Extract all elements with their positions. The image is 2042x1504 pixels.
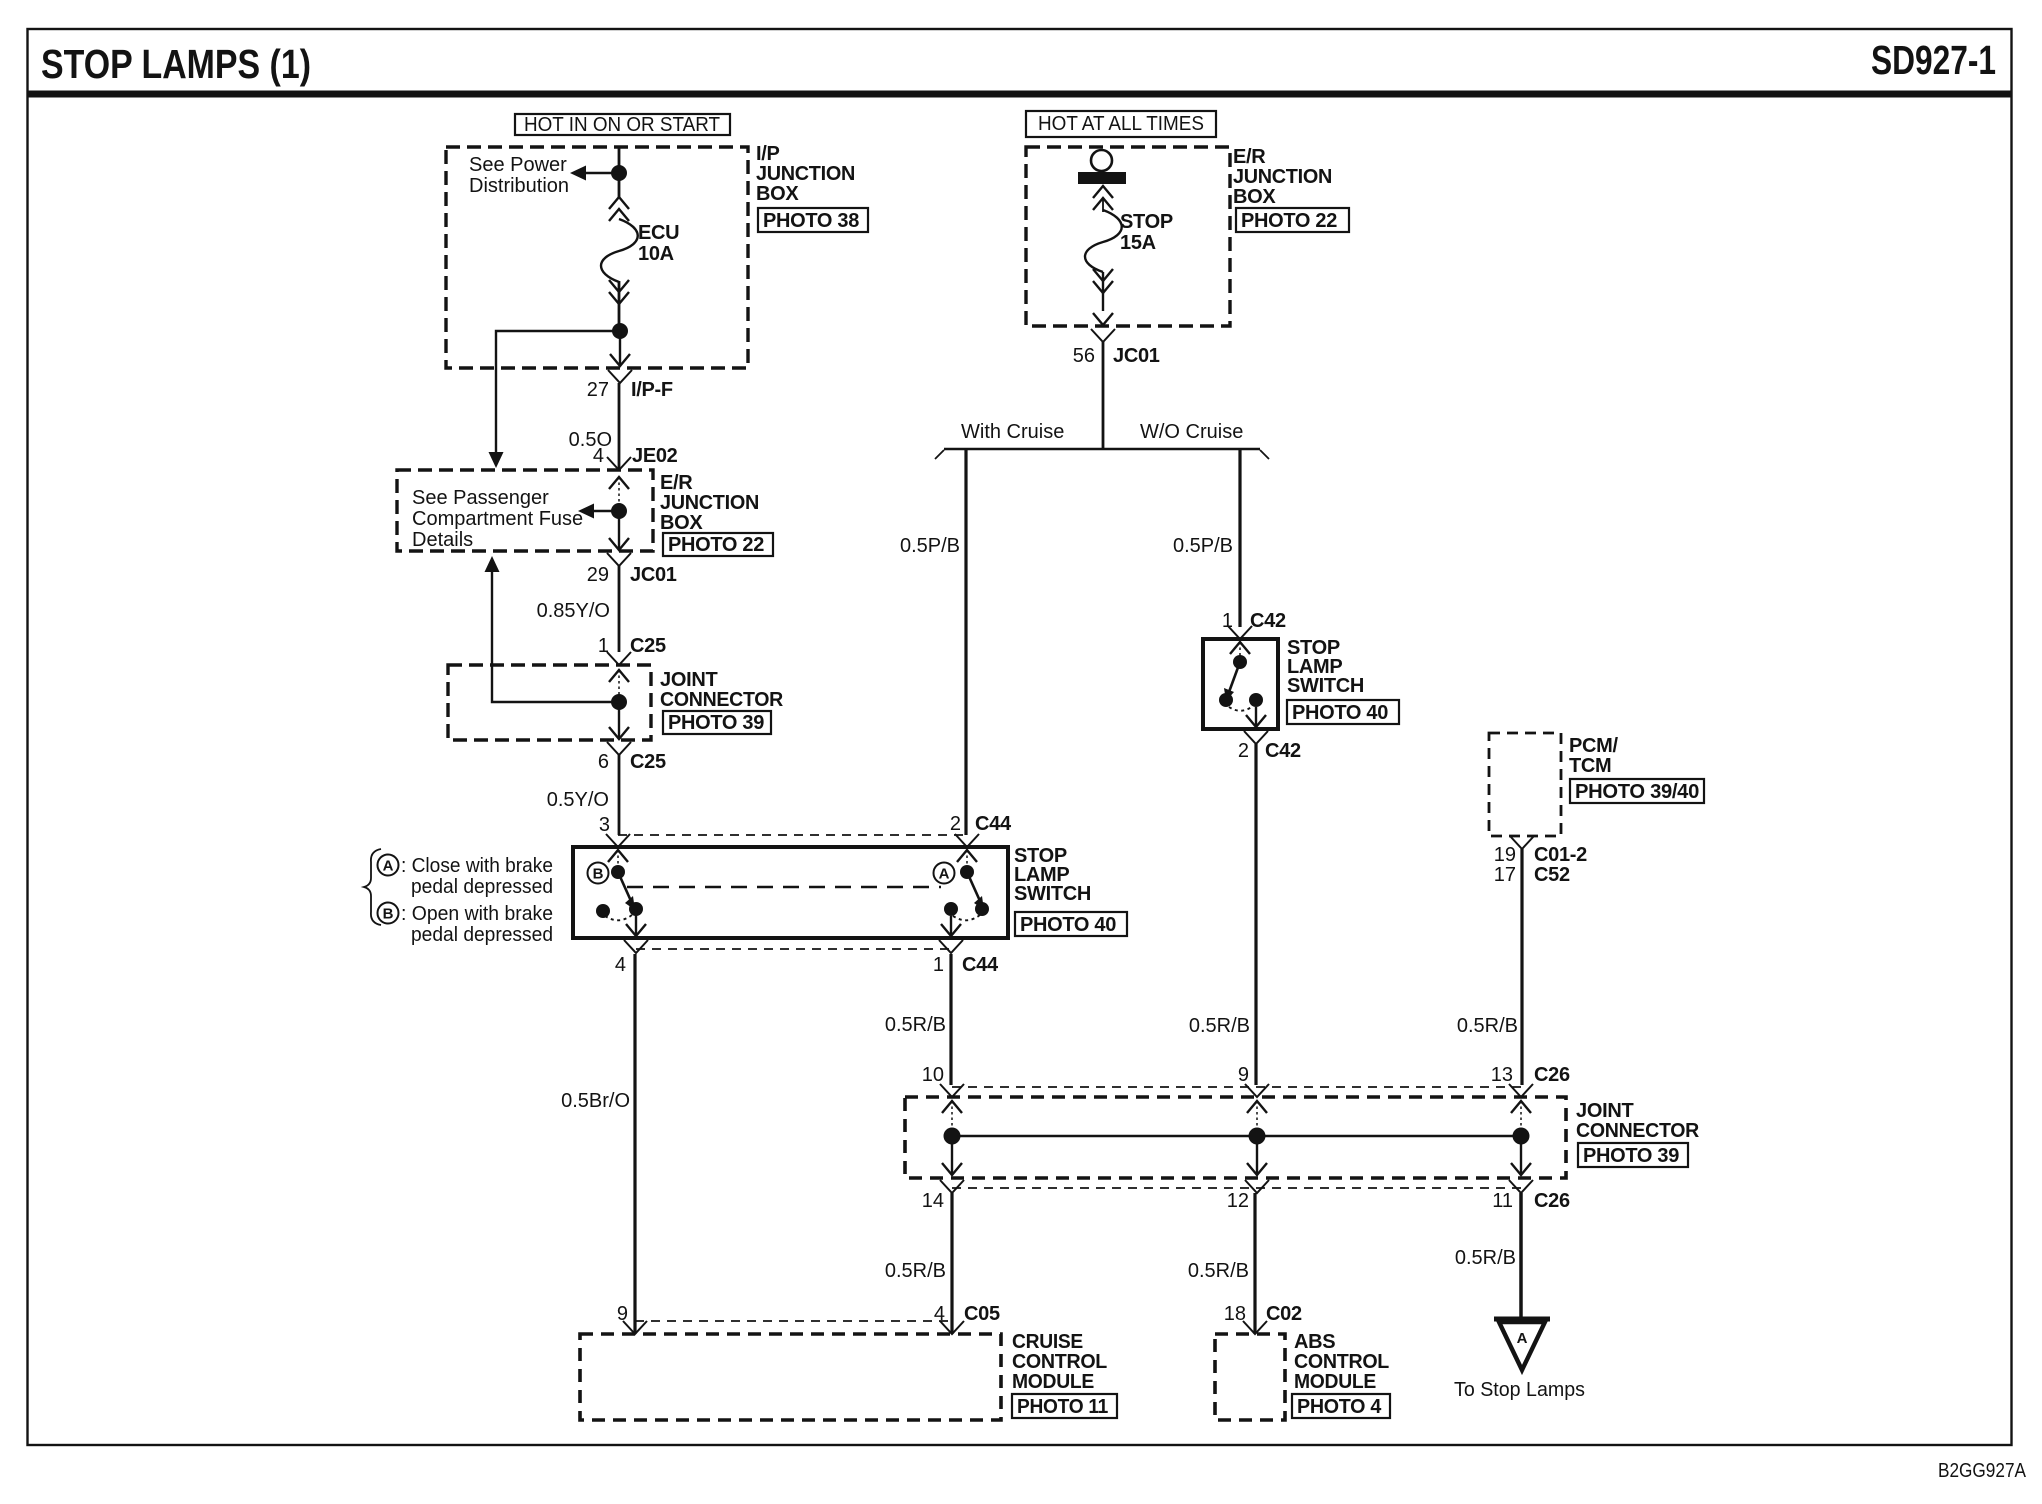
svg-text:12: 12 [1227, 1190, 1249, 1212]
switch A dotted arc [953, 915, 980, 920]
svg-text:A: A [1517, 1330, 1528, 1347]
switch pole dot B [611, 865, 625, 879]
PHOTO 4 label [1292, 1394, 1390, 1418]
svg-text:2: 2 [950, 813, 961, 835]
dashed tie line below switch [636, 948, 951, 950]
svg-text:: Open with brake: : Open with brake [401, 903, 553, 925]
circled A contact label [934, 863, 955, 884]
svg-text:JUNCTION: JUNCTION [660, 492, 759, 514]
connector 19 C01-2 / 17 C52 [1494, 836, 1587, 886]
svg-text:See Passenger: See Passenger [412, 487, 549, 509]
PCM/TCM label [1569, 735, 1619, 777]
connector 14 C26 exit [922, 1143, 964, 1212]
svg-text:0.5O: 0.5O [569, 429, 612, 451]
svg-text:BOX: BOX [756, 183, 799, 205]
connector 13 C26 entry [1491, 1064, 1570, 1128]
svg-text:ECU: ECU [638, 222, 679, 244]
switch U2 contact dot left [1219, 693, 1233, 707]
legend circled B [378, 903, 399, 924]
drawing number B2GG927A [1938, 1460, 2027, 1482]
connector 4 C05 entry [934, 1303, 1000, 1334]
cruise control module box [580, 1334, 1001, 1420]
switch U2 contact dot right [1249, 693, 1263, 707]
svg-text:27: 27 [587, 379, 609, 401]
connector 2 C44 entry [950, 813, 1012, 847]
svg-text:0.5R/B: 0.5R/B [1455, 1247, 1516, 1269]
svg-text:CONNECTOR: CONNECTOR [1576, 1120, 1700, 1142]
svg-text:2: 2 [1238, 740, 1249, 762]
svg-text:JUNCTION: JUNCTION [756, 163, 855, 185]
svg-text:HOT IN ON OR START: HOT IN ON OR START [524, 114, 720, 136]
pin3 inner chevron [608, 850, 628, 866]
wire cruise 0.5R/B lower [885, 1193, 952, 1334]
svg-text:0.5R/B: 0.5R/B [885, 1260, 946, 1282]
label With Cruise [961, 421, 1064, 443]
svg-text:C52: C52 [1534, 864, 1570, 886]
PHOTO 22 label left [663, 533, 773, 556]
svg-text:JC01: JC01 [1113, 345, 1160, 367]
connector 27 I/P-F at box bottom [587, 331, 673, 401]
legend note A [401, 855, 553, 898]
joint connector label [1576, 1100, 1700, 1142]
svg-text:29: 29 [587, 564, 609, 586]
wire with-cruise 0.5R/B upper [885, 954, 951, 1085]
cruise control module label [1012, 1331, 1107, 1393]
svg-text:0.85Y/O: 0.85Y/O [537, 600, 610, 622]
svg-text:STOP: STOP [1120, 211, 1173, 233]
bus junction dot right [1513, 1128, 1530, 1145]
svg-text:PHOTO 11: PHOTO 11 [1017, 1396, 1108, 1418]
node junction dot 4 [611, 694, 627, 710]
wire with-cruise 0.5P/B [900, 449, 966, 835]
svg-text:4: 4 [934, 1303, 945, 1325]
stop lamp switch U1 box [573, 847, 1008, 938]
legend brace [364, 849, 381, 925]
fuse STOP 15A [1078, 150, 1126, 311]
svg-text:0.5R/B: 0.5R/B [885, 1014, 946, 1036]
entry chevron inside joint connector [609, 670, 629, 695]
PHOTO 11 label [1012, 1394, 1117, 1418]
svg-text:pedal depressed: pedal depressed [411, 876, 553, 898]
PCM/TCM box [1489, 733, 1561, 836]
pin2 inner chevron [957, 850, 977, 866]
connector 1 C25 [598, 635, 666, 665]
wire from box top to node [618, 147, 621, 197]
switch blade A [967, 872, 984, 910]
svg-text:A: A [939, 866, 950, 883]
svg-text:0.5R/B: 0.5R/B [1189, 1015, 1250, 1037]
svg-text:PHOTO 22: PHOTO 22 [668, 534, 764, 556]
E/R junction box right label [1233, 146, 1332, 208]
PHOTO 39 label left [663, 711, 771, 734]
svg-text:C05: C05 [964, 1303, 1000, 1325]
switch contact dot B spare [596, 904, 610, 918]
svg-text:CRUISE: CRUISE [1012, 1331, 1083, 1353]
bus junction dot mid [1249, 1128, 1266, 1145]
wire 0.5O [569, 383, 619, 470]
connector 56 JC01 at box bottom [1073, 313, 1160, 367]
entry chevron inside E/R box [609, 477, 629, 504]
svg-text:MODULE: MODULE [1012, 1371, 1094, 1393]
label W/O Cruise [1140, 421, 1243, 443]
svg-text:ABS: ABS [1294, 1331, 1335, 1353]
svg-text:BOX: BOX [1233, 186, 1276, 208]
svg-text:PCM/: PCM/ [1569, 735, 1619, 757]
switch pole dot A [960, 865, 974, 879]
svg-text:C26: C26 [1534, 1064, 1570, 1086]
svg-text:TCM: TCM [1569, 755, 1611, 777]
wire 0.5Y/O [547, 755, 619, 835]
connector 12 C26 exit [1227, 1143, 1269, 1212]
E/R junction box left [397, 470, 653, 551]
svg-text:C01-2: C01-2 [1534, 844, 1587, 866]
switch contact dot B out [629, 902, 643, 916]
PHOTO 38 label [758, 208, 868, 232]
svg-text:CONTROL: CONTROL [1294, 1351, 1389, 1373]
svg-text:0.5Br/O: 0.5Br/O [561, 1090, 630, 1112]
node junction dot 2 [612, 323, 628, 339]
switch mid dashed line [627, 886, 941, 889]
PHOTO 22 label right [1236, 208, 1349, 232]
svg-text:See Power: See Power [469, 154, 567, 176]
PHOTO 39 label bottom [1578, 1143, 1688, 1167]
svg-text:Compartment Fuse: Compartment Fuse [412, 508, 583, 530]
svg-text:15A: 15A [1120, 232, 1156, 254]
svg-text:JOINT: JOINT [660, 669, 717, 691]
svg-text:PHOTO 4: PHOTO 4 [1297, 1396, 1382, 1418]
dashed tie line above switch [618, 834, 967, 836]
svg-text:BOX: BOX [660, 512, 703, 534]
svg-text:W/O Cruise: W/O Cruise [1140, 421, 1243, 443]
title STOP LAMPS (1) [41, 41, 311, 87]
svg-text:0.5Y/O: 0.5Y/O [547, 789, 609, 811]
svg-text:4: 4 [615, 954, 626, 976]
switch U2 pole dot [1233, 655, 1247, 669]
svg-text:56: 56 [1073, 345, 1095, 367]
joint connector left label [660, 669, 784, 711]
wire w/o-cruise 0.5R/B upper [1189, 744, 1256, 1085]
fuse ECU 10A [601, 197, 638, 331]
svg-text:10A: 10A [638, 243, 674, 265]
svg-text:C25: C25 [630, 751, 666, 773]
switch blade B [618, 872, 635, 910]
wire 0.85Y/O [537, 566, 619, 652]
svg-text:6: 6 [598, 751, 609, 773]
legend note B [401, 903, 553, 946]
joint connector box left [448, 665, 651, 740]
connector 9 C26 entry [1238, 1064, 1269, 1128]
svg-text:C42: C42 [1265, 740, 1301, 762]
svg-text:MODULE: MODULE [1294, 1371, 1376, 1393]
dashed tie line above cruise module [635, 1320, 952, 1322]
svg-text:SD927-1: SD927-1 [1871, 37, 1996, 83]
connector pin 9 entry [617, 1303, 647, 1334]
connector 2 C42 exit [1238, 707, 1301, 762]
svg-text:SWITCH: SWITCH [1287, 675, 1364, 697]
svg-text:pedal depressed: pedal depressed [411, 924, 553, 946]
fuse label STOP 15A [1120, 211, 1173, 254]
svg-text:PHOTO 38: PHOTO 38 [763, 210, 859, 232]
PHOTO 40 label big switch [1015, 912, 1127, 936]
dashed tie line below joint connector [952, 1187, 1521, 1189]
svg-text:14: 14 [922, 1190, 944, 1212]
switch B dotted arc [605, 915, 632, 920]
svg-text:To Stop Lamps: To Stop Lamps [1454, 1379, 1585, 1401]
connector 18 C02 entry [1224, 1303, 1302, 1334]
fuse label ECU 10A [638, 222, 679, 265]
svg-text:PHOTO 39: PHOTO 39 [668, 712, 764, 734]
off-page connector triangle A [1494, 1319, 1550, 1370]
power label HOT AT ALL TIMES [1026, 111, 1216, 137]
connector 1 C42 [1222, 610, 1286, 639]
svg-text:9: 9 [1238, 1064, 1249, 1086]
svg-text:0.5R/B: 0.5R/B [1457, 1015, 1518, 1037]
svg-text:1: 1 [598, 635, 609, 657]
svg-text:JOINT: JOINT [1576, 1100, 1633, 1122]
svg-text:10: 10 [922, 1064, 944, 1086]
bus junction dot left [944, 1128, 961, 1145]
svg-text:C44: C44 [962, 954, 999, 976]
svg-text:PHOTO 40: PHOTO 40 [1292, 702, 1388, 724]
switch U2 blade [1224, 662, 1240, 701]
circled B contact label [588, 863, 609, 884]
wire pcm 0.5R/B [1457, 849, 1522, 1085]
pin 4 exit from switch [615, 909, 648, 976]
switch U2 dotted arc [1229, 706, 1253, 711]
I/P junction box label [756, 143, 855, 205]
pin 3 label [599, 814, 610, 836]
svg-text:11: 11 [1492, 1190, 1513, 1212]
svg-text:With Cruise: With Cruise [961, 421, 1064, 443]
svg-text:0.5P/B: 0.5P/B [900, 535, 960, 557]
title bar divider [27, 91, 2012, 98]
page id SD927-1 [1871, 37, 1996, 83]
svg-text:Distribution: Distribution [469, 175, 569, 197]
ABS control module label [1294, 1331, 1389, 1393]
svg-text:C26: C26 [1534, 1190, 1570, 1212]
svg-text:: Close with brake: : Close with brake [401, 855, 553, 877]
svg-text:SWITCH: SWITCH [1014, 883, 1091, 905]
note See Passenger Compartment Fuse Details [412, 487, 583, 551]
ABS control module box [1215, 1334, 1285, 1420]
connector 11 C26 exit [1492, 1143, 1570, 1212]
svg-text:C42: C42 [1250, 610, 1286, 632]
dashed tie line above joint connector [952, 1086, 1521, 1088]
svg-text:0.5R/B: 0.5R/B [1188, 1260, 1249, 1282]
svg-text:C25: C25 [630, 635, 666, 657]
wire stop lamps 0.5R/B lower [1455, 1193, 1521, 1318]
svg-text:PHOTO 39: PHOTO 39 [1583, 1145, 1679, 1167]
svg-text:B: B [593, 866, 604, 883]
branch wire to JE02 arrow [489, 331, 621, 468]
legend circled A [378, 855, 399, 876]
svg-text:E/R: E/R [1233, 146, 1266, 168]
svg-text:HOT AT ALL TIMES: HOT AT ALL TIMES [1038, 113, 1204, 135]
svg-text:C02: C02 [1266, 1303, 1302, 1325]
power label HOT IN ON OR START [515, 114, 730, 136]
I/P junction box [446, 147, 748, 368]
switch contact dot A out [944, 902, 958, 916]
svg-text:1: 1 [1222, 610, 1233, 632]
wire from JC01 to fork [1102, 342, 1105, 449]
wire left 0.5Br/O [561, 954, 635, 1334]
svg-text:JE02: JE02 [632, 445, 678, 467]
svg-text:B: B [383, 906, 394, 923]
svg-text:3: 3 [599, 814, 610, 836]
note See Power Distribution [469, 154, 569, 197]
node junction dot 3 [611, 503, 627, 519]
svg-text:1: 1 [933, 954, 944, 976]
svg-text:17: 17 [1494, 864, 1516, 886]
svg-text:18: 18 [1224, 1303, 1246, 1325]
connector 10 C26 entry [922, 1064, 964, 1128]
stop lamp switch label [1014, 845, 1091, 905]
svg-text:I/P-F: I/P-F [631, 379, 673, 401]
svg-text:STOP LAMPS (1): STOP LAMPS (1) [41, 41, 311, 87]
svg-text:PHOTO 22: PHOTO 22 [1241, 210, 1337, 232]
svg-text:B2GG927A: B2GG927A [1938, 1460, 2027, 1482]
label To Stop Lamps [1454, 1379, 1585, 1401]
pin1 C42 inner chevron [1230, 642, 1250, 656]
connector pin 3 entry [606, 834, 630, 847]
svg-text:9: 9 [617, 1303, 628, 1325]
svg-text:Details: Details [412, 529, 473, 551]
connector 29 JC01 at box bottom [587, 518, 677, 586]
connector 4 JE02 [593, 445, 678, 470]
svg-text:E/R: E/R [660, 472, 693, 494]
svg-text:C44: C44 [975, 813, 1012, 835]
joint connector bus wire [952, 1135, 1521, 1138]
connector 1 C44 exit [933, 916, 999, 976]
svg-text:A: A [383, 858, 394, 875]
svg-text:PHOTO 40: PHOTO 40 [1020, 914, 1116, 936]
connector 6 C25 at box bottom [598, 709, 666, 773]
svg-text:CONNECTOR: CONNECTOR [660, 689, 784, 711]
stop lamp switch U2 box [1203, 639, 1278, 729]
fork with/without cruise [935, 449, 1269, 459]
svg-text:PHOTO 39/40: PHOTO 39/40 [1575, 781, 1699, 803]
svg-text:0.5P/B: 0.5P/B [1173, 535, 1233, 557]
see power distribution arrow [570, 166, 619, 181]
E/R junction box right [1026, 147, 1230, 326]
PHOTO 40 label small switch [1287, 700, 1399, 724]
wire w/o-cruise 0.5P/B [1173, 449, 1240, 627]
svg-text:I/P: I/P [756, 143, 780, 165]
joint connector box [905, 1097, 1566, 1178]
svg-text:13: 13 [1491, 1064, 1513, 1086]
svg-text:19: 19 [1494, 844, 1516, 866]
stop lamp switch U2 label [1287, 637, 1364, 697]
switch contact dot A end [975, 902, 989, 916]
svg-text:4: 4 [593, 445, 604, 467]
PHOTO 39/40 label [1570, 779, 1704, 803]
E/R junction box left label [660, 472, 759, 534]
svg-text:JUNCTION: JUNCTION [1233, 166, 1332, 188]
svg-text:CONTROL: CONTROL [1012, 1351, 1107, 1373]
node junction dot 1 [611, 165, 627, 181]
see passenger fuse arrow [578, 504, 617, 519]
svg-text:JC01: JC01 [630, 564, 677, 586]
wire abs 0.5R/B lower [1188, 1193, 1255, 1334]
branch wire arrow up to fuse box [485, 556, 620, 702]
